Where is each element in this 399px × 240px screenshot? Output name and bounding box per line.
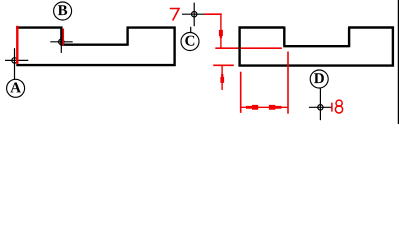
right view outline [238,26,394,67]
balloon D [310,70,328,88]
dimension text 7 (red) [170,9,179,21]
red dimension line (lower part of 7-dim) [221,65,223,90]
balloon letter D [314,73,324,83]
red extension line at notch left wall [62,29,64,46]
defpoint marker B [50,31,72,53]
right arrowhead [269,105,282,110]
defpoint marker D [309,88,332,120]
table border line at right [397,0,399,124]
extension line of notch bottom (red) [215,47,281,49]
extension line of bottom face (red) [213,64,234,66]
left view outline [16,26,176,65]
lower arrowhead (up) [220,74,224,83]
balloon letter A [10,82,21,92]
leader stub to balloon C [190,27,192,33]
defpoint marker A [5,48,28,79]
red dimension line 8 [241,106,288,108]
red extension line left (8-dim) [240,72,242,113]
balloon A [7,79,25,97]
balloon C [181,33,199,51]
left arrowhead [246,105,258,110]
red extension line right (8-dim) [287,52,289,114]
balloon letter C [185,36,194,46]
balloon letter B [58,5,67,15]
balloon B [54,2,72,20]
upper arrowhead (down) [219,30,223,38]
red leader from marker C [204,13,221,15]
red tick before 8 [331,103,333,112]
red dimension line (upper part of 7-dim) [220,13,222,49]
dimension text 8 (red, two loops) [336,100,342,106]
defpoint marker C [182,3,205,27]
left view highlighted left edge (red) [16,26,18,64]
